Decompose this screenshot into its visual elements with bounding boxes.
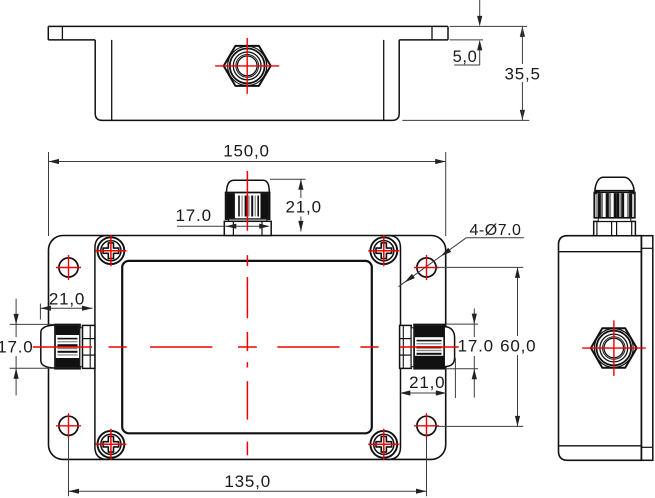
dimension 60,0 (mounting hole vertical pitch) — [436, 266, 523, 268]
svg-text:17.0: 17.0 — [0, 337, 34, 356]
dimension 17.0 (left gland nut) — [10, 323, 55, 325]
svg-text:5,0: 5,0 — [453, 48, 478, 66]
front view: left cable gland dome cap — [41, 325, 56, 368]
front view: body silhouette left edge — [95, 236, 108, 460]
dimension 35,5 (total height, top view) — [402, 119, 529, 121]
top view: left mounting tab divider — [61, 26, 63, 40]
front view: top cable gland dome cap — [227, 180, 270, 193]
front view: left gland washer — [80, 328, 83, 367]
side view: flange plate edge-on strip — [641, 236, 652, 461]
front view: mounting hole bottom-left — [59, 416, 78, 435]
front view: top gland knurled nut — [226, 193, 270, 220]
front view: top gland threaded neck — [224, 221, 271, 235]
front view: horizontal red centerline — [33, 346, 92, 348]
dimension 21,0 (top gland height) — [270, 178, 306, 180]
svg-text:17.0: 17.0 — [176, 206, 212, 225]
side view: gland collar notches — [594, 190, 601, 194]
front view: corner screw top-right — [370, 237, 397, 264]
svg-text:21,0: 21,0 — [409, 373, 445, 392]
svg-text:135,0: 135,0 — [224, 472, 271, 491]
front view: left gland knurled nut — [55, 325, 80, 369]
front view: corner screw top-left — [98, 237, 125, 264]
front view: right gland knurled nut — [414, 325, 444, 369]
dimension 17.0 (right gland nut) — [445, 323, 478, 325]
top view: right mounting tab divider — [431, 26, 433, 40]
side view: lid joint lines — [559, 251, 642, 253]
side view: red crosshair on nut — [582, 347, 646, 349]
dimension 135,0 (mounting hole horizontal pitch) — [68, 436, 70, 497]
front view: mounting hole bottom-right — [417, 416, 436, 435]
front view: corner screw bottom-left — [98, 431, 125, 458]
svg-text:60,0: 60,0 — [500, 337, 536, 356]
side view: top gland knurled nut — [594, 192, 635, 217]
front view: left gland threaded neck — [83, 325, 95, 368]
front view: flange plate outline — [49, 236, 446, 460]
front view: corner screw bottom-right — [370, 431, 397, 458]
front view: mounting hole top-left — [59, 258, 78, 277]
svg-text:21,0: 21,0 — [49, 290, 85, 309]
side view: top gland dome cap — [595, 177, 634, 190]
front view: right gland washer — [411, 328, 414, 367]
side view: top gland threaded neck — [594, 221, 636, 235]
top view: red centerline crosshair of gland — [215, 65, 279, 67]
front view: vertical red centerline — [246, 255, 248, 266]
svg-text:17.0: 17.0 — [458, 337, 494, 356]
front view: mounting hole top-right — [417, 258, 436, 277]
svg-text:35,5: 35,5 — [504, 65, 540, 84]
dimension 21,0 (right gland protrusion) — [454, 358, 456, 398]
svg-text:4-Ø7.0: 4-Ø7.0 — [470, 222, 522, 239]
top view: box body profile walls and bottom — [95, 40, 399, 121]
front view: body silhouette right edge — [388, 236, 401, 460]
dimension 17.0 (top gland thread) — [177, 225, 268, 227]
top view: flange bar (profile) — [48, 25, 448, 27]
side view: flange tab divider bottom — [641, 446, 652, 448]
side view: hex nut of side cable gland — [591, 328, 637, 368]
front view: lid opening inner rect — [122, 261, 372, 433]
front view: top gland washer — [229, 219, 267, 221]
side view: top gland washer — [598, 218, 631, 222]
label 4-Ø7.0 with leader to mounting hole — [466, 237, 524, 239]
side view: box body outline — [559, 236, 642, 461]
front view: top gland red centerline — [246, 171, 248, 231]
dimension 21,0 (left gland protrusion) — [39, 304, 41, 320]
svg-text:21,0: 21,0 — [286, 198, 322, 217]
side view: flange tab divider top — [641, 247, 652, 249]
svg-text:150,0: 150,0 — [223, 142, 270, 161]
front view: right cable gland threaded neck — [400, 325, 412, 368]
dimension 5,0 (flange thickness, top view) — [450, 25, 527, 27]
front view: right gland dome cap — [444, 327, 454, 367]
dimension 150,0 (front view width) — [48, 152, 50, 236]
top view: hex nut of top cable gland — [224, 46, 271, 86]
